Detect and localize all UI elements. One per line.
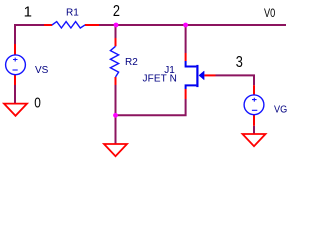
svg-text:1: 1 [24, 4, 32, 21]
svg-text:V0: V0 [264, 6, 276, 20]
svg-text:JFET N: JFET N [143, 73, 177, 84]
svg-text:0: 0 [34, 94, 41, 111]
svg-text:VG: VG [274, 105, 287, 116]
svg-text:R1: R1 [66, 7, 79, 18]
svg-text:3: 3 [236, 54, 243, 71]
svg-text:VS: VS [35, 65, 49, 76]
svg-text:2: 2 [113, 3, 120, 20]
svg-text:R2: R2 [125, 57, 138, 68]
